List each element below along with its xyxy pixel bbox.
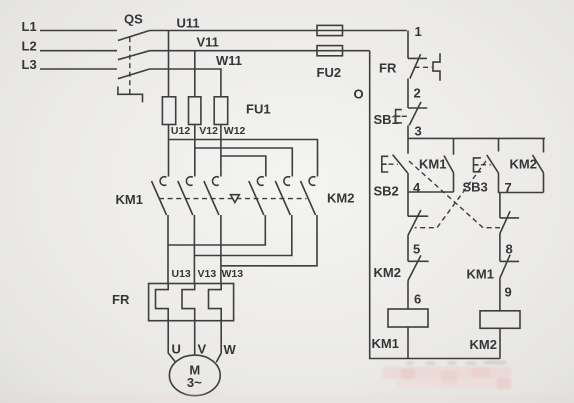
svg-text:W12: W12 — [224, 125, 246, 137]
svg-text:SB3: SB3 — [463, 180, 488, 195]
wire KM2 pole1 output to U — [168, 215, 265, 245]
wire U column to KM1 pole1 — [168, 125, 170, 177]
wire KM2 pole2 output to V — [194, 215, 291, 256]
wire V column upper — [194, 51, 196, 97]
svg-text:FR: FR — [112, 292, 130, 307]
contact KM2 interlock (NC) — [374, 255, 429, 280]
wire KM2 pole3 output to W — [221, 215, 317, 266]
watermark — [0, 361, 574, 403]
svg-text:2: 2 — [414, 86, 421, 101]
contactor KM2 main contacts — [249, 177, 355, 215]
wire KM1 pole2 output — [193, 215, 195, 284]
wire V column to KM1 pole2 — [194, 125, 196, 177]
contact KM1 interlock (NC) — [467, 255, 520, 282]
svg-text:1: 1 — [415, 24, 422, 39]
wire KM1 pole1 output — [167, 215, 169, 284]
coil KM1 — [372, 309, 429, 351]
svg-text:V12: V12 — [199, 125, 218, 137]
interlock dashed SB2 to right NC — [409, 161, 500, 228]
svg-text:U11: U11 — [177, 16, 200, 31]
coil KM2 — [470, 311, 521, 352]
fuse FU1-2 — [189, 97, 201, 125]
svg-text:V: V — [198, 342, 207, 357]
interlock dashed SB3 to left NC — [415, 161, 486, 228]
fuse FU2-1 — [317, 25, 343, 35]
svg-text:6: 6 — [414, 292, 421, 307]
fuse FU1-1 — [162, 97, 175, 125]
wire node1-2 — [407, 79, 409, 109]
svg-text:KM1: KM1 — [372, 336, 399, 351]
wire node3 — [407, 125, 409, 138]
svg-text:KM1: KM1 — [116, 192, 143, 207]
svg-text:U13: U13 — [172, 268, 191, 280]
wire SB3 drop — [498, 138, 500, 151]
fuse FU2-2 — [317, 46, 343, 56]
wire U column upper — [168, 31, 170, 97]
wire node 7 — [499, 173, 544, 218]
svg-text:U12: U12 — [171, 125, 190, 137]
svg-text:L2: L2 — [22, 39, 37, 54]
svg-text:QS: QS — [124, 12, 143, 27]
wire row W11 — [150, 69, 221, 97]
svg-text:3: 3 — [415, 124, 422, 139]
contactor KM1 main contacts — [116, 177, 219, 215]
svg-text:FU2: FU2 — [317, 65, 342, 80]
contact KM1 aux (NO) — [419, 156, 454, 193]
svg-text:L1: L1 — [22, 19, 37, 34]
wire jumper V to KM2 pole2 — [195, 148, 292, 177]
svg-text:KM2: KM2 — [374, 265, 401, 280]
contact KM2 aux (NO) — [510, 155, 544, 193]
switch QS — [118, 12, 150, 103]
wire node 9 — [499, 278, 501, 311]
wire jumper U to KM2 pole3 — [169, 140, 318, 177]
pushbutton SB1 (NC) — [374, 102, 428, 127]
svg-text:7: 7 — [505, 180, 512, 195]
mechanical linkage dashed — [159, 198, 307, 200]
wire jumper W to KM2 pole1 — [221, 156, 266, 177]
wire motor lead U — [168, 321, 176, 363]
svg-text:W13: W13 — [222, 268, 244, 280]
wire KM2 aux drop — [543, 138, 545, 152]
wire row U11 — [150, 30, 407, 32]
svg-text:9: 9 — [505, 285, 512, 300]
wire KM1 aux drop — [453, 138, 455, 154]
svg-text:SB2: SB2 — [374, 184, 399, 199]
wire KM1 pole3 output — [220, 215, 222, 284]
svg-text:5: 5 — [413, 242, 420, 257]
svg-text:KM1: KM1 — [467, 267, 494, 282]
svg-text:O: O — [354, 87, 364, 102]
svg-text:3~: 3~ — [187, 375, 202, 390]
wire control phase down — [407, 31, 409, 59]
svg-text:W11: W11 — [216, 53, 242, 68]
svg-text:KM2: KM2 — [510, 157, 537, 172]
pushbutton SB3 (NO) — [463, 155, 499, 195]
wire SB2 drop — [407, 138, 409, 153]
svg-text:FR: FR — [379, 61, 397, 76]
svg-text:U: U — [172, 342, 181, 357]
linkage triangle — [231, 195, 240, 203]
wire node 4 — [408, 173, 454, 216]
svg-text:4: 4 — [413, 180, 421, 195]
pushbutton SB2 (NO) — [374, 155, 408, 199]
fuse FU1-3 — [214, 97, 228, 125]
motor M — [169, 355, 220, 396]
wire node 5 — [407, 236, 409, 262]
svg-text:KM2: KM2 — [470, 337, 497, 352]
wire KM1 coil to bus — [407, 327, 409, 359]
svg-text:L3: L3 — [22, 57, 37, 72]
wire motor lead W — [216, 321, 221, 363]
contact right NC1 (SB2 interlock) — [500, 211, 519, 233]
svg-text:KM2: KM2 — [327, 191, 354, 206]
wire L3 input — [40, 68, 117, 70]
wire 0-line — [370, 51, 500, 359]
svg-text:V11: V11 — [197, 35, 219, 50]
svg-text:8: 8 — [506, 242, 513, 257]
wire motor lead V — [194, 321, 196, 356]
wire node 8 — [499, 234, 501, 262]
wire control bus — [408, 137, 545, 139]
svg-text:KM1: KM1 — [419, 157, 446, 172]
svg-text:W: W — [224, 342, 237, 357]
wire KM2 coil to bus — [499, 328, 501, 358]
wire W column to KM1 pole3 — [220, 125, 222, 177]
relay contact FR (NC) — [379, 53, 440, 80]
contact SB3 interlock (NC) — [408, 210, 428, 236]
wire node 6 — [407, 281, 409, 309]
wire L2 input — [40, 50, 117, 52]
svg-text:FU1: FU1 — [246, 102, 271, 117]
wire row V11 — [150, 50, 370, 52]
svg-text:V13: V13 — [198, 268, 217, 280]
thermal relay FR heaters — [112, 284, 234, 321]
wire L1 input — [40, 30, 117, 32]
